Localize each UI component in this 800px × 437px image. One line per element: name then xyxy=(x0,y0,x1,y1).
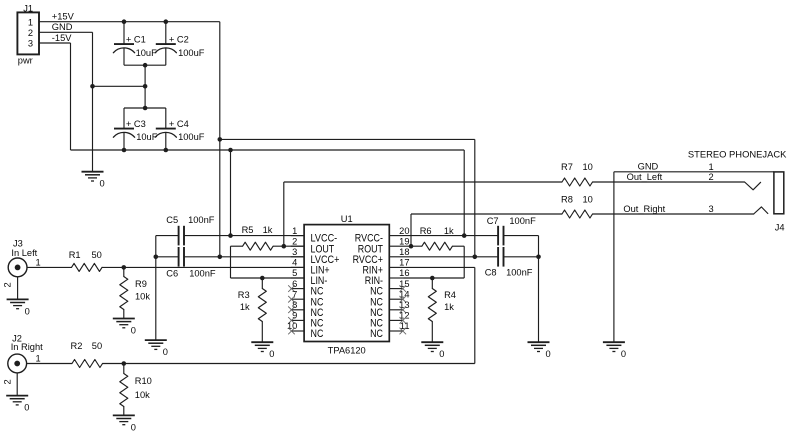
svg-text:3: 3 xyxy=(709,204,714,214)
svg-text:In Right: In Right xyxy=(11,342,43,352)
pin 18 RVCC+ xyxy=(353,247,410,266)
svg-text:0: 0 xyxy=(24,403,29,413)
wire RIN+ riser xyxy=(474,267,476,363)
pin 7 NC xyxy=(288,289,323,308)
svg-text:20: 20 xyxy=(399,226,409,236)
wire LOUT riser xyxy=(283,182,285,246)
svg-text:GND: GND xyxy=(52,22,73,32)
svg-text:TPA6120: TPA6120 xyxy=(328,346,366,356)
wire In_Left to LIN+ xyxy=(102,266,304,268)
wire -15V from J1 xyxy=(39,42,71,44)
svg-text:100nF: 100nF xyxy=(188,215,215,225)
ground 0 below R3 xyxy=(251,342,274,359)
connector J2 In Right xyxy=(3,334,44,385)
svg-text:3: 3 xyxy=(292,247,297,257)
svg-text:5: 5 xyxy=(292,268,297,278)
svg-text:+ C3: + C3 xyxy=(126,119,146,129)
wire C3 C4 top xyxy=(124,107,166,109)
svg-text:NC: NC xyxy=(311,328,324,340)
pin 12 NC xyxy=(370,311,409,330)
svg-text:10: 10 xyxy=(287,321,297,331)
wire C5 C6 ground vertical xyxy=(155,236,157,340)
ground 0 below R9 xyxy=(113,319,136,336)
pin 9 NC xyxy=(288,311,323,330)
capacitor C4 100uF xyxy=(155,119,205,142)
svg-text:+ C1: + C1 xyxy=(126,34,146,44)
capacitor C5 100nF xyxy=(156,215,304,245)
pin 13 NC xyxy=(370,300,409,319)
capacitor C4 lead xyxy=(165,108,167,150)
connector J1 pwr xyxy=(17,3,39,65)
label +15V xyxy=(52,12,75,22)
pin 2 LOUT xyxy=(291,236,335,255)
pin 3 jack xyxy=(709,204,714,214)
svg-text:0: 0 xyxy=(100,179,105,189)
resistor R3 1k xyxy=(238,278,266,342)
svg-text:U1: U1 xyxy=(341,214,353,224)
svg-text:100nF: 100nF xyxy=(509,216,536,226)
svg-text:50: 50 xyxy=(92,250,102,260)
svg-text:10: 10 xyxy=(583,162,593,172)
svg-text:R3: R3 xyxy=(238,290,250,300)
wire ROUT row xyxy=(404,245,465,247)
svg-text:1: 1 xyxy=(709,162,714,172)
connector J4 body xyxy=(774,172,785,233)
wire jack GND vertical xyxy=(613,172,615,342)
pin 1 jack xyxy=(709,162,714,172)
svg-text:1: 1 xyxy=(36,257,41,267)
wire RVCC- row xyxy=(404,235,499,237)
svg-text:C8: C8 xyxy=(485,267,497,277)
wire J3 ground stub xyxy=(17,277,19,299)
svg-text:J3: J3 xyxy=(13,238,23,248)
svg-text:R10: R10 xyxy=(135,376,152,386)
svg-text:C6: C6 xyxy=(166,268,178,278)
svg-text:0: 0 xyxy=(621,349,626,359)
svg-text:2: 2 xyxy=(3,282,13,287)
pin 14 NC xyxy=(370,289,409,308)
svg-text:C7: C7 xyxy=(487,216,499,226)
svg-text:+ C2: + C2 xyxy=(169,34,189,44)
wire LOUT row xyxy=(231,245,305,247)
wire RIN- row xyxy=(404,277,465,279)
wire -15V drop to LVCC- xyxy=(230,150,232,236)
svg-text:R9: R9 xyxy=(135,279,147,289)
svg-text:2: 2 xyxy=(28,28,33,38)
svg-text:17: 17 xyxy=(399,258,409,268)
wire GND from J1 xyxy=(39,31,93,33)
connector J4 tip contact xyxy=(745,182,761,190)
svg-text:100uF: 100uF xyxy=(178,48,205,58)
svg-text:0: 0 xyxy=(546,349,551,359)
wire Out_Right to jack xyxy=(593,213,755,215)
resistor R4 1k xyxy=(428,278,456,342)
connector J4 ring contact xyxy=(754,207,768,214)
svg-text:1k: 1k xyxy=(263,225,273,235)
pin 17 RIN+ xyxy=(363,258,410,277)
connector J3 In Left xyxy=(3,238,41,287)
wire C7 C8 ground vertical xyxy=(538,236,540,342)
svg-text:1: 1 xyxy=(36,353,41,363)
svg-text:0: 0 xyxy=(163,347,168,357)
svg-text:pwr: pwr xyxy=(18,55,33,65)
wire J2 ground stub xyxy=(16,373,18,396)
pin 3 LVCC+ xyxy=(291,247,340,266)
label Out_Left net xyxy=(627,172,663,182)
wire C1 C2 bottom xyxy=(124,64,166,66)
resistor R7 10 xyxy=(561,162,593,186)
svg-text:STEREO PHONEJACK: STEREO PHONEJACK xyxy=(688,149,787,160)
resistor R2 50 xyxy=(71,341,103,368)
ground 0 below J2 xyxy=(6,396,29,413)
wire LIN- row xyxy=(231,277,305,279)
svg-text:2: 2 xyxy=(3,379,13,384)
label STEREO PHONEJACK xyxy=(688,149,787,160)
ground 0 below R10 xyxy=(113,415,136,432)
svg-text:10k: 10k xyxy=(135,292,150,302)
svg-text:J1: J1 xyxy=(23,3,33,13)
ground 0 below R4 xyxy=(421,342,444,359)
svg-text:16: 16 xyxy=(399,268,409,278)
wire In_Left lead xyxy=(27,266,72,268)
capacitor C7 100nF xyxy=(487,216,539,245)
resistor R5 1k xyxy=(242,225,274,250)
ground 0 below J3 xyxy=(7,299,30,316)
wire +15V branch drop xyxy=(474,139,476,256)
wire In_Right lead xyxy=(27,363,72,365)
wire Out_Left xyxy=(284,181,562,183)
pin 6 NC xyxy=(288,279,323,298)
pin 10 NC xyxy=(287,321,324,340)
svg-text:R7: R7 xyxy=(561,162,573,172)
pin 16 RIN- xyxy=(365,268,410,287)
svg-text:2: 2 xyxy=(709,172,714,182)
ground 0 below jack GND xyxy=(603,342,626,359)
svg-text:+15V: +15V xyxy=(52,12,75,22)
svg-text:10uF: 10uF xyxy=(136,48,158,58)
wire ROUT riser xyxy=(410,214,412,246)
capacitor C8 100nF xyxy=(485,247,539,277)
capacitor C6 100nF xyxy=(156,247,304,278)
svg-text:In Left: In Left xyxy=(11,248,37,258)
resistor R8 10 xyxy=(561,195,593,219)
label Out_Right net xyxy=(623,204,665,214)
wire -15V vertical xyxy=(70,43,72,150)
svg-text:0: 0 xyxy=(131,422,136,432)
svg-text:1k: 1k xyxy=(240,302,250,312)
svg-text:C5: C5 xyxy=(166,215,178,225)
resistor R10 10k xyxy=(120,364,152,416)
svg-text:0: 0 xyxy=(269,349,274,359)
pin 15 NC xyxy=(370,279,409,298)
wire GND branch to caps xyxy=(93,85,146,87)
svg-text:100nF: 100nF xyxy=(189,268,216,278)
capacitor C3 lead xyxy=(123,108,125,150)
capacitor C2 lead xyxy=(165,22,167,65)
pin 1 LVCC- xyxy=(291,226,338,245)
svg-text:R6: R6 xyxy=(420,226,432,236)
svg-text:100uF: 100uF xyxy=(178,132,205,142)
label -15V xyxy=(52,33,72,43)
svg-text:10: 10 xyxy=(583,195,593,205)
op-amp U1 TPA6120 body xyxy=(304,214,389,356)
ground 0 below J1 GND xyxy=(82,172,105,189)
wire Out_Left to jack xyxy=(593,181,745,183)
wire R6 to RIN- xyxy=(463,246,465,278)
wire RIN+ row xyxy=(404,266,475,268)
svg-text:10k: 10k xyxy=(135,390,150,400)
pin 2 jack xyxy=(709,172,714,182)
svg-text:-15V: -15V xyxy=(52,33,72,43)
svg-text:50: 50 xyxy=(92,341,102,351)
svg-text:100nF: 100nF xyxy=(506,267,533,277)
svg-text:Out_Left: Out_Left xyxy=(627,172,663,182)
svg-text:10uF: 10uF xyxy=(136,132,158,142)
svg-text:1k: 1k xyxy=(444,226,454,236)
wire -15V rail xyxy=(71,149,465,151)
svg-text:1k: 1k xyxy=(444,302,454,312)
resistor R6 1k xyxy=(420,226,454,250)
svg-text:Out_Right: Out_Right xyxy=(623,204,665,214)
wire RVCC+ row xyxy=(404,256,499,258)
label GND net xyxy=(638,161,659,171)
label GND xyxy=(52,22,73,32)
svg-text:2: 2 xyxy=(292,236,297,246)
svg-text:R1: R1 xyxy=(69,250,81,260)
svg-text:0: 0 xyxy=(25,306,30,316)
svg-text:19: 19 xyxy=(399,236,409,246)
svg-text:3: 3 xyxy=(28,38,33,48)
svg-text:J4: J4 xyxy=(775,223,785,233)
capacitor C1 lead xyxy=(123,22,125,65)
svg-text:18: 18 xyxy=(399,247,409,257)
wire GND to jack xyxy=(614,171,774,173)
pin 11 NC xyxy=(370,321,409,340)
wire GND vertical xyxy=(92,32,94,171)
wire +15V branch right xyxy=(220,138,475,140)
capacitor C3 10uF xyxy=(113,119,157,142)
svg-text:R8: R8 xyxy=(561,195,573,205)
svg-text:NC: NC xyxy=(370,328,383,340)
capacitor C1 10uF xyxy=(113,34,157,57)
wire In_Right to riser xyxy=(103,363,475,365)
wire +15V vertical drop xyxy=(219,22,221,257)
svg-text:0: 0 xyxy=(131,326,136,336)
svg-text:GND: GND xyxy=(638,161,659,171)
ground 0 below C5 C6 xyxy=(145,340,168,357)
capacitor C2 100uF xyxy=(155,34,205,57)
pin 19 ROUT xyxy=(358,236,410,255)
ground 0 below C7 C8 xyxy=(528,342,551,359)
wire +15V rail xyxy=(39,21,220,23)
pin 8 NC xyxy=(288,300,323,319)
pin 20 RVCC- xyxy=(355,226,410,245)
svg-text:1: 1 xyxy=(28,18,33,28)
wire R5 to LIN- xyxy=(230,246,232,278)
svg-text:R2: R2 xyxy=(71,341,83,351)
wire -15V drop to RVCC- xyxy=(463,150,465,236)
wire cap midpoint vertical xyxy=(144,65,146,108)
svg-text:R5: R5 xyxy=(242,225,254,235)
wire Out_Right xyxy=(411,213,562,215)
svg-text:R4: R4 xyxy=(444,290,456,300)
svg-text:4: 4 xyxy=(292,258,297,268)
resistor R9 10k xyxy=(120,267,151,318)
svg-text:1: 1 xyxy=(292,226,297,236)
resistor R1 50 xyxy=(69,250,102,271)
svg-text:0: 0 xyxy=(439,349,444,359)
pin 4 LIN+ xyxy=(291,258,330,277)
pin 5 LIN- xyxy=(291,268,328,287)
svg-text:+ C4: + C4 xyxy=(169,119,189,129)
